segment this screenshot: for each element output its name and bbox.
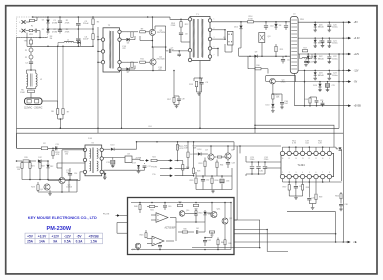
resistor R48: [217, 238, 219, 240]
capacitor C36: [281, 94, 283, 102]
capacitor C8: [180, 31, 182, 32]
svg-text:150K: 150K: [20, 92, 25, 94]
wire cluster to TL494: [265, 167, 281, 169]
svg-text:6: 6: [316, 172, 317, 174]
resistor R49: [224, 238, 226, 240]
wire bottom loop: [192, 247, 260, 249]
capacitor C42: [204, 238, 206, 240]
svg-text:+5VSB: +5VSB: [135, 158, 142, 160]
svg-text:220uF: 220uF: [83, 23, 89, 25]
svg-text:D6: D6: [127, 43, 129, 45]
svg-text:1000u: 1000u: [332, 43, 338, 45]
resistor R6: [57, 46, 59, 108]
ground standby: [48, 193, 52, 196]
svg-text:1: 1: [282, 172, 283, 174]
resistor R19: [17, 160, 23, 162]
T1 pins right: [208, 19, 211, 22]
wire cluster gnd rails: [196, 189, 232, 191]
svg-text:5: 5: [309, 172, 310, 174]
resistor R23: [37, 182, 39, 184]
svg-text:115VAC - 230VAC: 115VAC - 230VAC: [24, 107, 43, 110]
diode D10: [271, 104, 274, 107]
resistor R24: [151, 159, 157, 161]
node arrow sig1: [168, 160, 170, 162]
resistor R39: [315, 182, 317, 194]
capacitor C41: [197, 230, 198, 234]
svg-text:2SC3320: 2SC3320: [156, 59, 165, 61]
wire AC bottom: [27, 37, 48, 39]
wire TL494 bottom link: [287, 211, 336, 213]
svg-text:C39: C39: [182, 99, 185, 101]
wire protection rail: [196, 145, 281, 147]
capacitor C14: [69, 168, 71, 173]
svg-text:AZ7500BP: AZ7500BP: [164, 227, 176, 230]
resistor R22: [39, 160, 41, 163]
wire -12V feed: [276, 81, 298, 83]
svg-text:12: 12: [308, 158, 310, 160]
svg-text:PSON: PSON: [151, 167, 157, 169]
svg-text:Q6: Q6: [40, 189, 42, 191]
svg-text:R9: R9: [141, 28, 143, 30]
svg-text:C25: C25: [332, 85, 335, 87]
diode D9: [254, 55, 257, 58]
svg-text:C38: C38: [345, 204, 348, 206]
resistor R8 base Q1: [121, 31, 127, 33]
svg-text:KEY MOUSE ELECTRONICS CO., LTD: KEY MOUSE ELECTRONICS CO., LTD: [28, 215, 97, 220]
transformer T3: [85, 145, 102, 176]
wire box mid nets: [176, 221, 205, 223]
svg-text:L2: L2: [40, 79, 42, 81]
resistor R45: [145, 230, 147, 233]
resistor R28: [193, 142, 195, 168]
wire bus B: [17, 133, 344, 242]
svg-text:-12V: -12V: [64, 234, 72, 238]
svg-text:4: 4: [302, 172, 303, 174]
wire Q1 collector: [151, 17, 153, 29]
svg-text:Q10: Q10: [186, 210, 189, 212]
resistor R14: [248, 21, 254, 23]
op-amp U4A: [156, 213, 168, 223]
svg-text:U2: U2: [223, 37, 225, 39]
wire caps top rail: [246, 161, 281, 163]
diode D26: [307, 55, 309, 56]
wire standby bottom: [38, 191, 77, 193]
diode D23: [314, 71, 316, 72]
resistor R56: [340, 192, 342, 194]
diode D5: [77, 41, 80, 44]
svg-text:+3.3V: +3.3V: [38, 234, 47, 238]
wire Q2 emitter: [152, 65, 154, 70]
svg-text:+5V: +5V: [354, 22, 359, 24]
wire Q4 down: [272, 84, 274, 94]
diode D13: [103, 148, 110, 150]
wire output rail +3.3V: [298, 37, 348, 39]
resistor R18: [309, 97, 311, 98]
resistor R3: [92, 17, 94, 19]
fuse F2: [41, 147, 48, 150]
wire output rail -12V: [298, 69, 348, 71]
wire box bottom rail: [131, 249, 231, 251]
diode D1: [47, 17, 49, 20]
ground TL494: [289, 195, 302, 197]
svg-text:-5V: -5V: [77, 234, 83, 238]
varistor Z2: [30, 52, 32, 54]
capacitor C1: [59, 17, 61, 20]
svg-text:C41: C41: [196, 228, 199, 230]
svg-text:4.7K: 4.7K: [292, 143, 297, 145]
wire top rail to T1: [170, 17, 190, 19]
svg-text:C14: C14: [74, 173, 77, 175]
spec table: [25, 233, 103, 244]
wire signal drops: [175, 160, 178, 162]
node arrow PS-ON: [160, 167, 168, 169]
svg-text:C13: C13: [55, 144, 58, 146]
wire T2 bottom drop: [121, 71, 123, 129]
svg-text:R11: R11: [140, 59, 143, 61]
svg-text:R16: R16: [256, 65, 259, 67]
wire TL494 lower net: [309, 203, 316, 205]
svg-text:Z2: Z2: [25, 57, 27, 59]
diode D22: [314, 55, 316, 56]
resistor R47: [209, 231, 215, 233]
capacitor C7 coupling: [165, 47, 167, 51]
svg-text:TL494: TL494: [297, 163, 305, 167]
resistor R57: [173, 71, 175, 97]
svg-text:14A: 14A: [39, 240, 46, 244]
U1 pin stubs top: [282, 147, 284, 151]
node arrow PG out: [160, 175, 168, 177]
svg-text:13: 13: [302, 158, 304, 160]
svg-text:C26: C26: [320, 100, 323, 102]
U1 pins top row: [280, 151, 284, 155]
wire output rail +12V: [298, 53, 348, 55]
wire output rail +5V: [298, 21, 348, 23]
resistor R25: [177, 142, 179, 145]
capacitor C34: [295, 182, 297, 186]
svg-text:15: 15: [288, 158, 290, 160]
diode D17: [103, 169, 136, 171]
node arrow +5V: [346, 21, 349, 23]
resistor R42: [177, 204, 183, 206]
wire Q4 loop: [266, 75, 296, 77]
T3 pins right: [100, 148, 103, 151]
svg-text:14: 14: [295, 158, 297, 160]
capacitor C11: [285, 22, 287, 25]
svg-text:C40: C40: [168, 206, 171, 208]
wire standby gnd rail: [22, 179, 78, 181]
wire HV top rail: [33, 16, 170, 18]
transistor Q10: [179, 211, 185, 217]
svg-text:SB540: SB540: [318, 27, 325, 29]
resistor R33: [204, 158, 206, 162]
svg-text:R41: R41: [150, 209, 153, 211]
sub-circuit module U4: [128, 198, 235, 255]
capacitor C4: [30, 59, 32, 61]
wire standby feed bus: [17, 147, 86, 149]
wire verticals to bottom nets: [236, 146, 238, 220]
wire divider bottom: [58, 118, 63, 120]
varistor VR1: [29, 29, 33, 31]
svg-text:R15: R15: [280, 49, 283, 51]
U1 pins bottom row: [280, 174, 284, 178]
resistor R41: [149, 205, 155, 207]
wire box to net3: [234, 233, 336, 235]
resistor R9: [140, 31, 146, 33]
wire rail6 +5VSB: [295, 105, 349, 107]
wire rail4 to rail6: [304, 70, 306, 105]
inductor L5: [300, 58, 303, 60]
svg-text:C24: C24: [310, 62, 313, 64]
capacitor C25: [327, 82, 329, 83]
resistor R21: [29, 161, 31, 163]
wire TL494 top net: [283, 146, 337, 148]
svg-text:R39: R39: [319, 197, 322, 199]
resistor R38: [302, 182, 304, 185]
capacitor C5 220uF/200V: [77, 17, 79, 23]
svg-text:+3.3V: +3.3V: [354, 38, 361, 40]
transistor Q6: [44, 184, 50, 190]
wire 5VSB rail top: [137, 141, 235, 143]
op-amp U1 TL494: [281, 153, 334, 176]
transistor Q5: [59, 177, 65, 183]
svg-text:470K: 470K: [65, 31, 70, 33]
svg-text:Q12: Q12: [229, 218, 232, 220]
resistor R34: [216, 160, 218, 163]
svg-text:1000u: 1000u: [332, 58, 338, 60]
wire box to net1: [234, 220, 260, 248]
svg-text:C4: C4: [25, 62, 27, 64]
wire mid node to Q2: [152, 46, 165, 48]
svg-text:11: 11: [315, 158, 317, 160]
svg-text:220uF: 220uF: [83, 39, 89, 41]
svg-text:7: 7: [322, 172, 323, 174]
switch SW1: [36, 17, 38, 20]
node arrow +12V: [346, 53, 349, 55]
capacitor C9 snubber: [201, 78, 203, 82]
T3 pins left: [83, 148, 86, 151]
resistor R4: [92, 29, 94, 34]
svg-text:PG: PG: [153, 174, 156, 176]
svg-text:R34: R34: [220, 165, 223, 167]
wire box to net2: [234, 230, 288, 252]
svg-text:16: 16: [282, 158, 284, 160]
op-amp U4B: [152, 236, 164, 246]
capacitor C31: [264, 162, 266, 166]
capacitor C2: [59, 26, 61, 30]
diode D8: [275, 22, 277, 24]
AC terminal N: [22, 29, 26, 33]
svg-text:1.5A: 1.5A: [90, 240, 97, 244]
resistor R58: [52, 148, 54, 150]
junction dots bottom: [266, 229, 268, 231]
svg-text:+12V: +12V: [51, 234, 59, 238]
node arrow +3.3V: [346, 37, 349, 39]
diode D20: [314, 23, 316, 24]
svg-text:+5VSB: +5VSB: [354, 106, 362, 108]
wire Q5 connections: [48, 180, 59, 182]
svg-text:R19: R19: [24, 157, 27, 159]
resistor R50: [272, 94, 274, 99]
capacitor C24: [305, 59, 307, 61]
svg-text:R46: R46: [183, 228, 186, 230]
resistor R46: [182, 231, 188, 233]
svg-text:D40: D40: [208, 214, 211, 216]
diode D2: [47, 26, 49, 29]
capacitor C44: [322, 39, 324, 40]
diode D11: [104, 172, 106, 173]
node arrow +5VSB: [346, 105, 349, 107]
svg-text:PM-230W: PM-230W: [47, 226, 72, 232]
svg-text:C33: C33: [226, 181, 229, 183]
diode D21: [314, 39, 316, 40]
svg-text:D7: D7: [127, 72, 129, 74]
wire rail5: [298, 81, 348, 83]
svg-text:GND: GND: [148, 126, 153, 128]
resistor R32: [214, 156, 216, 158]
diode D14: [194, 153, 198, 155]
T1 pins left: [188, 18, 191, 21]
AC terminal L: [22, 20, 26, 24]
svg-text:5: 5: [214, 46, 215, 48]
varistor Z1: [30, 44, 32, 48]
svg-text:F1: F1: [31, 26, 33, 28]
svg-text:L1: L1: [67, 39, 69, 41]
svg-text:8: 8: [329, 172, 330, 174]
capacitor C10: [265, 22, 267, 25]
wire TL494 right loop: [334, 133, 338, 158]
inductor L1: [58, 42, 64, 44]
capacitor C6 220uF/200V: [77, 29, 79, 38]
wire filter bottom rail: [27, 45, 93, 47]
inductor L3 output choke: [290, 16, 298, 73]
wire box inner verticals: [175, 222, 177, 241]
T2 pins right: [118, 30, 121, 33]
resistor R16: [255, 68, 261, 70]
wire T1 bottom drop: [199, 61, 201, 129]
resistor R37: [288, 182, 290, 185]
svg-text:R21: R21: [31, 166, 34, 168]
wire T1 sec taps: [212, 29, 225, 31]
svg-text:2: 2: [214, 28, 215, 30]
svg-text:470K: 470K: [65, 22, 70, 24]
zener ZD2: [47, 161, 49, 165]
resistor R7: [62, 46, 64, 108]
thermistor TH1: [30, 38, 32, 41]
svg-text:0.5A: 0.5A: [64, 240, 71, 244]
wire standby lower: [248, 68, 268, 70]
resistor R5: [30, 88, 32, 91]
capacitor C38: [340, 201, 342, 204]
wire filter mid rail: [48, 28, 93, 30]
wire PG line: [234, 241, 348, 243]
svg-text:0.3A: 0.3A: [76, 240, 83, 244]
choke L2 common mode: [27, 69, 36, 71]
svg-text:Z1: Z1: [25, 50, 27, 52]
wire left main vertical: [16, 38, 18, 149]
diode D40: [204, 210, 206, 212]
fuse F1: [26, 21, 30, 23]
svg-text:ZD2: ZD2: [50, 166, 53, 168]
resistor R10 base Q2: [121, 61, 127, 63]
capacitor C26: [316, 97, 318, 100]
svg-text:R3: R3: [97, 22, 99, 24]
wire left vertical to standby: [16, 133, 18, 148]
transistor Q11: [211, 212, 217, 218]
svg-text:C32: C32: [206, 180, 209, 182]
svg-text:C28: C28: [232, 163, 235, 165]
resistor R11: [140, 61, 146, 63]
regulator U3: [125, 156, 132, 163]
svg-text:1000u: 1000u: [332, 27, 338, 29]
wire standby mid rail: [239, 55, 291, 57]
transformer T2: [103, 28, 120, 72]
svg-text:+5VSB: +5VSB: [89, 234, 100, 238]
svg-text:3: 3: [295, 172, 296, 174]
voltage selector SW2: [25, 98, 43, 104]
svg-text:SB540: SB540: [318, 58, 325, 60]
svg-text:474M: 474M: [52, 31, 57, 33]
wire C7 junction: [178, 51, 180, 54]
svg-text:220K: 220K: [171, 25, 176, 27]
svg-text:1M: 1M: [65, 154, 68, 156]
svg-text:R12: R12: [185, 24, 188, 26]
capacitor C35: [308, 182, 310, 198]
wire T2 left vertical: [97, 27, 99, 133]
resistor R26: [182, 163, 184, 165]
transformer T1: [190, 17, 210, 61]
svg-text:9A: 9A: [53, 240, 58, 244]
wire Q1 emitter node: [151, 36, 153, 48]
wire box left stub: [117, 222, 128, 224]
svg-text:1M: 1M: [17, 169, 20, 171]
svg-text:474M: 474M: [52, 22, 57, 24]
svg-text:R22: R22: [41, 166, 44, 168]
svg-text:C5353: C5353: [66, 187, 73, 189]
svg-text:3: 3: [214, 37, 215, 39]
capacitor C33: [221, 176, 223, 178]
photocoupler U2: [228, 31, 234, 45]
diode D15: [335, 147, 337, 149]
resistor R40: [139, 203, 141, 205]
svg-text:R28: R28: [197, 171, 200, 173]
wire rail join right: [342, 22, 344, 133]
svg-text:9: 9: [329, 158, 330, 160]
svg-text:+12V: +12V: [354, 54, 360, 56]
svg-text:-5V: -5V: [354, 82, 358, 84]
capacitor CY1: [34, 29, 36, 33]
svg-text:SB540: SB540: [318, 75, 325, 77]
svg-text:PG: PG: [353, 242, 356, 244]
node arrow -12V: [346, 69, 349, 71]
transistor Q7: [208, 154, 214, 160]
capacitor C13: [56, 146, 57, 150]
svg-text:R48: R48: [221, 242, 224, 244]
svg-text:10: 10: [322, 158, 324, 160]
capacitor C27: [322, 101, 324, 103]
transistor Q13: [135, 243, 141, 249]
wire box top rail: [131, 202, 231, 204]
resistor R43: [193, 204, 199, 206]
wire Q3 emitter: [261, 43, 263, 57]
wire selector to divider: [42, 100, 58, 102]
resistor R17: [302, 50, 308, 52]
resistor R13 snubber: [194, 77, 203, 79]
wire rail join mid: [338, 54, 340, 128]
capacitor C32: [202, 176, 204, 179]
svg-text:2: 2: [289, 172, 290, 174]
svg-text:C10: C10: [270, 26, 273, 28]
wire right vertical x166: [165, 26, 167, 71]
